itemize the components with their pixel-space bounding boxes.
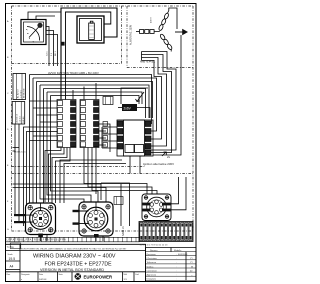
svg-text:W: W [191, 266, 193, 268]
svg-text:A1 B2 C3: A1 B2 C3 [17, 89, 20, 98]
svg-text:Visto: Visto [59, 273, 63, 276]
svg-text:2x: 2x [167, 155, 171, 159]
svg-text:A4: A4 [10, 265, 14, 269]
svg-text:Numero: Numero [150, 249, 158, 252]
svg-text:5/4/2003: 5/4/2003 [39, 279, 46, 281]
svg-text:Disegnato: Disegnato [21, 273, 30, 276]
svg-text:BK BU 2x1.5: BK BU 2x1.5 [14, 152, 26, 154]
svg-text:C2 1: C2 1 [47, 51, 49, 56]
svg-text:Verifica: Verifica [147, 265, 155, 268]
svg-text:Rev.: Rev. [7, 274, 11, 276]
svg-text:BK BU BN: BK BU BN [24, 88, 26, 98]
svg-text:A1 B2 C3: A1 B2 C3 [16, 113, 19, 122]
svg-text:2x6V: 2x6V [124, 106, 132, 110]
svg-text:BK BU: BK BU [23, 116, 25, 123]
svg-text:SA9B 13: SA9B 13 [122, 226, 125, 236]
svg-text:Revisione: Revisione [147, 254, 157, 256]
svg-text:AMB +E #VEC: AMB +E #VEC [140, 61, 155, 64]
svg-text:Tav. Agg.: Tav. Agg. [7, 246, 15, 249]
svg-text:6/05/2003: 6/05/2003 [178, 254, 188, 256]
svg-text:123: 123 [124, 279, 127, 281]
svg-text:Modello: Modello [174, 250, 182, 252]
svg-text:ALIMENTAZ. 230V: ALIMENTAZ. 230V [130, 24, 133, 45]
svg-text:Ignition alternative 230V: Ignition alternative 230V [143, 162, 174, 166]
svg-text:L F P A T R V B L F P A T R V: L F P A T R V B L F P A T R V B L F P A … [7, 239, 67, 242]
svg-text:WIRING DIAGRAM 230V ~ 400V: WIRING DIAGRAM 230V ~ 400V [33, 253, 116, 259]
svg-text:Tolleranza: Tolleranza [147, 261, 157, 264]
svg-text:Approvato: Approvato [147, 274, 157, 277]
svg-text:19.5: 19.5 [9, 257, 16, 261]
svg-text:N.A.: N.A. [124, 273, 128, 276]
svg-text:BK 1: BK 1 [55, 50, 57, 56]
svg-text:EUROPOWER: EUROPOWER [84, 274, 114, 279]
svg-text:1 2 3 4 5: 1 2 3 4 5 [20, 89, 22, 98]
svg-text:FOR EP243TDE + EP277DE: FOR EP243TDE + EP277DE [45, 261, 113, 267]
svg-text:Costruttore: Costruttore [147, 269, 158, 272]
svg-text:G: G [7, 229, 9, 231]
svg-text:EUROPOWER SRL VIA DELL'ARTIGIA: EUROPOWER SRL VIA DELL'ARTIGIANATO 10 35… [21, 247, 127, 250]
svg-text:I Revisione: I Revisione [147, 258, 158, 260]
svg-text:1 2 3 4: 1 2 3 4 [20, 115, 22, 122]
svg-text:400 V: 400 V [151, 17, 153, 23]
svg-text:Disegnato: Disegnato [147, 278, 157, 281]
svg-text:Scala: Scala [8, 254, 14, 256]
svg-text:Cod.: Cod. [135, 274, 139, 276]
svg-text:VERSION IN METAL BOX STANDARD: VERSION IN METAL BOX STANDARD [40, 268, 104, 272]
